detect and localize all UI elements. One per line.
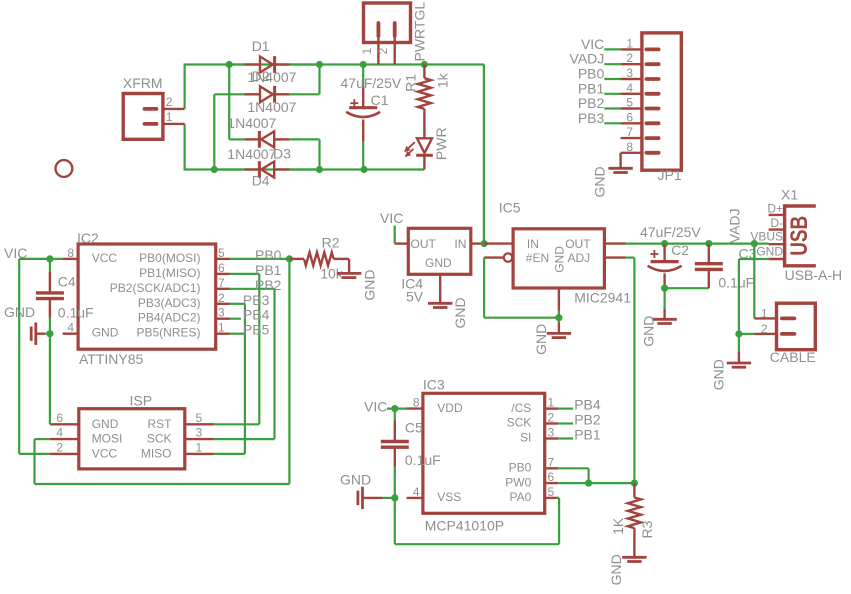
svg-text:GND: GND — [608, 554, 624, 585]
IC4 IN pin — [471, 242, 484, 244]
wire ISP MISO net — [214, 453, 245, 455]
svg-text:8: 8 — [67, 246, 74, 260]
connector XFRM — [123, 94, 163, 140]
node junction C1 bottom — [361, 166, 368, 173]
svg-text:VDD: VDD — [437, 401, 463, 415]
wire PB0 to MOSI loop — [288, 259, 290, 484]
svg-text:5: 5 — [196, 411, 203, 425]
svg-text:PB1(MISO): PB1(MISO) — [139, 266, 200, 280]
svg-text:ADJ: ADJ — [568, 251, 591, 265]
ground IC3 — [383, 497, 395, 499]
node IC3 VSS junction — [391, 494, 398, 501]
svg-text:PB3(ADC3): PB3(ADC3) — [138, 296, 201, 310]
wire XFRM pin1 drop — [184, 124, 186, 171]
svg-text:PA0: PA0 — [510, 490, 532, 504]
svg-text:PB3: PB3 — [578, 110, 605, 126]
svg-text:C5: C5 — [405, 420, 423, 436]
svg-text:MIC2941: MIC2941 — [574, 290, 631, 306]
svg-text:4: 4 — [56, 426, 63, 440]
IC IC5 box — [513, 229, 604, 288]
node junction C1 top — [360, 61, 367, 68]
svg-text:VCC: VCC — [92, 446, 118, 460]
wire D3 anode to return rail — [318, 139, 320, 170]
svg-text:4: 4 — [626, 81, 633, 95]
svg-text:2: 2 — [56, 440, 63, 454]
svg-text:PB3: PB3 — [243, 292, 270, 308]
wire PB4 net at IC3 — [558, 408, 573, 410]
connector PWRTGL — [364, 3, 411, 43]
ground IC5 — [558, 318, 560, 323]
IC5 #EN pin — [504, 253, 512, 261]
svg-text:IC5: IC5 — [499, 200, 521, 216]
svg-text:PWRTGL: PWRTGL — [411, 2, 427, 62]
svg-text:1N4007: 1N4007 — [227, 146, 276, 162]
svg-text:#EN: #EN — [526, 251, 549, 265]
diode D2 — [214, 93, 244, 95]
wire D2 cathode to V+ rail — [318, 64, 320, 95]
wire D2 anode riser — [213, 94, 215, 169]
node C3 top junction — [705, 240, 712, 247]
svg-text:2: 2 — [761, 322, 768, 336]
svg-text:D-: D- — [770, 216, 783, 230]
svg-text:47uF/25V: 47uF/25V — [640, 224, 701, 240]
node IC2 pin8 junction — [46, 255, 53, 262]
svg-text:6: 6 — [56, 411, 63, 425]
svg-text:PB2(SCK/ADC1): PB2(SCK/ADC1) — [110, 281, 201, 295]
capacitor C3 — [708, 244, 710, 264]
LED PWR — [417, 138, 432, 153]
svg-text:8: 8 — [626, 140, 633, 154]
wire ISP MOSI stub — [35, 438, 50, 440]
svg-text:5V: 5V — [406, 289, 424, 305]
svg-text:SCK: SCK — [507, 416, 532, 430]
wire PA0 loop — [557, 497, 560, 499]
svg-text:PB0: PB0 — [255, 247, 282, 263]
wire VIC down to ISP — [18, 259, 20, 454]
svg-text:X1: X1 — [781, 187, 798, 203]
svg-text:2: 2 — [218, 291, 225, 305]
wire VBUS to CABLE1 — [753, 244, 755, 319]
wire #EN to GND — [483, 258, 485, 318]
IC IC4 box — [408, 228, 471, 274]
svg-text:XFRM: XFRM — [123, 75, 163, 91]
svg-text:IC3: IC3 — [423, 377, 445, 393]
wire bottom return rail — [185, 168, 425, 170]
wire PB2 net — [230, 288, 275, 290]
svg-text:GND: GND — [553, 246, 567, 273]
wire PB0 net — [230, 258, 290, 260]
svg-text:1: 1 — [548, 396, 555, 410]
node junction V+ out — [316, 61, 323, 68]
svg-text:MISO: MISO — [141, 446, 172, 460]
svg-text:2: 2 — [548, 411, 555, 425]
resistor R1 — [423, 65, 425, 79]
ground IC2 pin4 — [45, 333, 50, 335]
wire PB1 net at IC3 — [558, 437, 573, 439]
connector JP1 — [642, 33, 681, 170]
wire VADJ rail — [665, 243, 755, 245]
ground C2 — [663, 288, 665, 309]
wire VIC to IC4 OUT — [394, 226, 396, 244]
svg-text:OUT: OUT — [565, 237, 591, 251]
svg-text:PW0: PW0 — [505, 475, 531, 489]
node IC5 IN junction — [481, 240, 488, 247]
svg-text:6: 6 — [218, 261, 225, 275]
svg-text:VCC: VCC — [92, 251, 118, 265]
wire ISP SCK net — [214, 438, 275, 440]
svg-text:PB4(ADC2): PB4(ADC2) — [138, 311, 201, 325]
wire C2-C3 bottom — [665, 287, 709, 289]
wire PB4 net — [230, 318, 241, 320]
node C2 top junction — [661, 240, 668, 247]
svg-text:47uF/25V: 47uF/25V — [341, 75, 402, 91]
svg-text:VADJ: VADJ — [726, 208, 742, 243]
svg-text:CABLE: CABLE — [770, 349, 816, 365]
svg-text:PB1: PB1 — [574, 427, 601, 443]
svg-text:GND: GND — [4, 304, 35, 320]
svg-text:R1: R1 — [403, 74, 419, 92]
svg-text:1: 1 — [196, 440, 203, 454]
IC3 pin 8 — [407, 407, 423, 409]
wire PB5 net — [230, 333, 245, 335]
svg-text:GND: GND — [92, 326, 119, 340]
svg-text:PB1: PB1 — [255, 262, 282, 278]
wire D3 cathode riser — [228, 65, 230, 140]
svg-text:0.1uF: 0.1uF — [405, 452, 441, 468]
svg-text:PB5(NRES): PB5(NRES) — [136, 326, 200, 340]
connector X1 USB — [783, 204, 786, 267]
node junction return D4 right — [316, 166, 323, 173]
IC2 pin 4 GND — [63, 333, 79, 335]
svg-text:4: 4 — [67, 321, 74, 335]
wire USB GND net — [739, 258, 769, 260]
node IC2 pin4 junction — [46, 330, 53, 337]
wire VBUS stub — [754, 243, 768, 245]
svg-text:PB1: PB1 — [578, 80, 605, 96]
svg-text:PB0: PB0 — [578, 66, 605, 82]
svg-text:PWR: PWR — [433, 127, 449, 160]
wire CABLE2 stub — [739, 333, 754, 335]
resistor R3 — [633, 483, 635, 497]
svg-text:7: 7 — [218, 276, 225, 290]
svg-text:JP1: JP1 — [658, 167, 682, 183]
IC5 GND pin — [558, 288, 560, 311]
svg-text:6: 6 — [548, 470, 555, 484]
svg-text:GND: GND — [340, 472, 371, 488]
svg-text:VBUS: VBUS — [750, 230, 783, 244]
svg-text:3: 3 — [548, 426, 555, 440]
svg-text:5: 5 — [218, 246, 225, 260]
IC3 right pins — [545, 407, 559, 409]
wire ISP RST net — [214, 423, 259, 425]
IC5 ADJ pin — [604, 256, 626, 258]
svg-text:GND: GND — [640, 316, 656, 347]
ground JP1 pin8 — [619, 153, 621, 168]
svg-text:PB0(MOSI): PB0(MOSI) — [139, 251, 200, 265]
svg-text:VIC: VIC — [364, 399, 387, 415]
svg-text:OUT: OUT — [411, 237, 437, 251]
svg-text:2: 2 — [626, 51, 633, 65]
svg-text:ISP: ISP — [130, 393, 153, 409]
svg-text:R2: R2 — [322, 235, 340, 251]
node junction return D4 left — [211, 166, 218, 173]
wire ISP GND riser — [49, 334, 51, 425]
svg-text:1: 1 — [626, 36, 633, 50]
svg-text:1K: 1K — [610, 517, 626, 535]
node PW0 junction — [585, 480, 592, 487]
ISP pins — [50, 423, 79, 425]
svg-text:D4: D4 — [252, 173, 270, 189]
svg-text:SI: SI — [520, 431, 531, 445]
wire ISP VCC stub — [19, 453, 50, 455]
wire VIC to IC2 pin8 — [19, 258, 62, 260]
svg-text:VSS: VSS — [437, 490, 461, 504]
svg-text:3: 3 — [626, 66, 633, 80]
svg-text:1: 1 — [360, 48, 374, 55]
svg-text:PB4: PB4 — [574, 397, 601, 413]
node IC3 VDD junction — [391, 405, 398, 412]
svg-text:SCK: SCK — [147, 432, 172, 446]
svg-text:3: 3 — [196, 426, 203, 440]
svg-text:ATTINY85: ATTINY85 — [79, 351, 144, 367]
svg-text:3: 3 — [218, 306, 225, 320]
wire PB0-PW0 link — [558, 467, 588, 469]
wire ISP GND stub — [50, 423, 51, 425]
svg-text:VIC: VIC — [380, 210, 403, 226]
svg-text:GND: GND — [592, 166, 608, 197]
node CABLE pin2 junction — [735, 330, 742, 337]
IC2 pin 8 VCC — [63, 258, 79, 260]
node junction V+ D1 — [226, 61, 233, 68]
svg-text:6: 6 — [626, 110, 633, 124]
svg-text:MOSI: MOSI — [92, 432, 123, 446]
svg-text:8: 8 — [413, 396, 420, 410]
svg-text:GND: GND — [92, 417, 119, 431]
wire ADJ net — [626, 257, 635, 259]
node ADJ-R3 junction — [631, 480, 638, 487]
svg-text:D1: D1 — [252, 38, 270, 54]
diode D1 — [229, 63, 244, 65]
svg-text:RST: RST — [148, 417, 173, 431]
svg-text:D3: D3 — [273, 146, 291, 162]
svg-text:PB4: PB4 — [243, 307, 270, 323]
svg-text:1k: 1k — [434, 72, 450, 88]
svg-text:1N4007: 1N4007 — [247, 69, 296, 85]
svg-text:1: 1 — [761, 306, 768, 320]
resistor R2 — [289, 258, 304, 260]
svg-text:2: 2 — [376, 48, 390, 55]
wire PB3 net — [230, 303, 245, 305]
wire VIC to IC3 — [387, 408, 407, 410]
svg-text:GND: GND — [710, 359, 726, 390]
svg-text:PB5: PB5 — [243, 322, 270, 338]
node IC5 GND junction — [555, 314, 562, 321]
svg-text:0.1uF: 0.1uF — [718, 275, 754, 291]
capacitor C4 — [49, 259, 51, 272]
svg-text:GND: GND — [362, 269, 378, 300]
svg-text:GND: GND — [756, 245, 783, 259]
svg-text:MCP41010P: MCP41010P — [425, 518, 504, 534]
svg-text:0.1uF: 0.1uF — [58, 305, 94, 321]
svg-text:IN: IN — [454, 237, 466, 251]
svg-text:GND: GND — [452, 297, 468, 328]
svg-text:D+: D+ — [767, 201, 783, 215]
svg-text:1: 1 — [166, 110, 173, 124]
svg-text:PB2: PB2 — [255, 277, 282, 293]
capacitor C5 — [394, 409, 396, 421]
svg-text:GND: GND — [425, 256, 452, 270]
origin circle — [56, 160, 73, 177]
IC IC2 ATTINY85 box — [78, 244, 216, 349]
capacitor C2 — [663, 244, 665, 262]
svg-text:/CS: /CS — [511, 401, 531, 415]
svg-text:IN: IN — [527, 237, 539, 251]
svg-text:IC2: IC2 — [77, 230, 99, 246]
ground R3 — [622, 556, 646, 559]
svg-text:R3: R3 — [639, 520, 655, 538]
svg-text:7: 7 — [548, 455, 555, 469]
svg-text:PB0: PB0 — [509, 461, 532, 475]
IC IC3 box — [423, 393, 545, 513]
connector ISP box — [79, 409, 185, 469]
svg-text:7: 7 — [626, 125, 633, 139]
IC3 pin 4 — [407, 497, 423, 499]
wire OUT net — [626, 243, 665, 245]
svg-text:USB-A-H: USB-A-H — [785, 267, 843, 283]
svg-text:PB2: PB2 — [578, 95, 605, 111]
IC5 IN pin — [484, 242, 513, 244]
svg-text:5: 5 — [626, 96, 633, 110]
wire top V+ rail — [185, 63, 484, 65]
node C2 bottom junction — [661, 285, 668, 292]
svg-text:C1: C1 — [371, 92, 389, 108]
ground IC4 — [439, 274, 441, 303]
IC2 right pins — [216, 258, 230, 260]
svg-text:2: 2 — [166, 95, 173, 109]
node junction R1 top — [421, 61, 428, 68]
svg-text:GND: GND — [533, 324, 549, 355]
svg-text:VIC: VIC — [581, 36, 604, 52]
svg-text:4: 4 — [413, 485, 420, 499]
IC5 OUT pin — [604, 242, 626, 244]
svg-text:1: 1 — [218, 321, 225, 335]
node PB0 junction — [286, 255, 293, 262]
diode D3 — [229, 138, 244, 140]
wire XFRM pin2 riser — [184, 64, 186, 109]
ground R2 — [337, 272, 361, 275]
connector CABLE — [777, 303, 816, 350]
node VBUS junction — [751, 240, 758, 247]
capacitor C1 — [362, 65, 364, 87]
svg-text:5: 5 — [548, 485, 555, 499]
diode D4 — [214, 168, 244, 170]
svg-text:PB2: PB2 — [574, 412, 601, 428]
svg-text:VADJ: VADJ — [570, 51, 605, 67]
svg-text:C4: C4 — [58, 274, 76, 290]
svg-text:1N4007: 1N4007 — [247, 99, 296, 115]
wire PB2 net at IC3 — [558, 422, 573, 424]
wire PW0 net — [558, 482, 634, 484]
wire PB1 net — [230, 273, 260, 275]
svg-text:1N4007: 1N4007 — [227, 115, 276, 131]
ground CABLE — [738, 334, 740, 352]
svg-text:USB: USB — [786, 216, 813, 256]
